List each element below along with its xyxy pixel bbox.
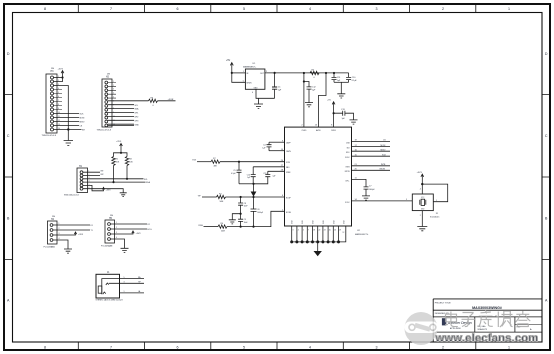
watermark logo disc: [405, 312, 439, 345]
svg-text:23: 23: [324, 230, 326, 232]
node R1/SDA: [112, 181, 114, 183]
svg-text:SSW-106-02-G-S: SSW-106-02-G-S: [64, 195, 80, 197]
svg-text:MOSI: MOSI: [381, 145, 386, 147]
ground (U1): [254, 98, 263, 108]
connector H2 (12-pin header): [102, 79, 112, 127]
capacitor C12: [304, 82, 312, 103]
ground (H5): [121, 248, 129, 252]
wire H3 pin3 down: [54, 86, 69, 130]
capacitor C5: [237, 162, 242, 184]
oscillator X1: [412, 194, 433, 211]
svg-text:1: 1: [124, 291, 125, 293]
wire H1 pin2: [83, 175, 100, 177]
node bus pin8: [327, 240, 330, 243]
connector H1 (6-pin header, I2C): [77, 168, 88, 193]
svg-text:C9: C9: [244, 219, 246, 221]
wire U2 INT2B: [352, 169, 391, 171]
resistor R7: [211, 160, 220, 163]
svg-text:6: 6: [177, 346, 179, 350]
svg-text:MISO: MISO: [80, 122, 85, 124]
watermark chinese glyph 3: [479, 310, 493, 327]
wire VCM net: [197, 161, 211, 163]
svg-text:GND: GND: [254, 87, 259, 89]
resistor R3 (pull-up SCL): [125, 157, 128, 166]
node C8/C9 mid: [240, 213, 242, 215]
ground arrow (ref node to ECGP): [253, 184, 255, 192]
svg-text:25: 25: [329, 230, 331, 232]
svg-text:4: 4: [298, 230, 299, 232]
wire mid branch to ground: [232, 214, 240, 220]
wire H2 pin12: [108, 124, 134, 126]
svg-text:0.1µF: 0.1µF: [352, 80, 358, 82]
svg-text:4: 4: [309, 346, 311, 350]
wire H3 pin10: [54, 113, 80, 115]
svg-text:C15: C15: [263, 173, 266, 175]
wire R1 bottom to SDA: [113, 166, 115, 183]
wire H3 pin2: [54, 78, 63, 82]
node bus pin4: [306, 240, 309, 243]
svg-text:DN: DN: [52, 216, 56, 218]
wire +5V to U1 IN: [232, 72, 246, 74]
watermark chinese glyph 1: [445, 312, 458, 327]
svg-text:10: 10: [58, 112, 60, 114]
title block row line 1: [433, 309, 542, 311]
title block column divider 2: [514, 317, 516, 332]
node rail C1: [274, 72, 276, 74]
connector H3 (14-pin header, top-left): [46, 74, 57, 133]
resistor R2: [217, 195, 226, 198]
svg-text:INT2B: INT2B: [380, 169, 386, 171]
J1 ring contact: [103, 292, 106, 294]
node bus pin6: [316, 240, 319, 243]
H3 pin stubs: [54, 90, 63, 110]
wire H3 pin11: [54, 117, 80, 119]
wire U1 GND down: [256, 89, 275, 98]
wire H5 pin4 to ground: [111, 239, 125, 248]
wire H2 pin9: [108, 115, 134, 117]
ground (H1 pin6): [120, 193, 127, 197]
wire U2 CAPN stub: [269, 150, 285, 152]
wire H2 pin5 to R6: [108, 100, 149, 102]
H4 pin numbers: [59, 223, 60, 240]
svg-text:5: 5: [406, 199, 407, 201]
wire H2 pin11: [108, 123, 134, 125]
connector H4 (4-pin header): [48, 221, 58, 244]
svg-text:10nF: 10nF: [244, 206, 248, 208]
node pull-up top: [120, 152, 122, 154]
svg-text:D: D: [7, 52, 10, 56]
wire H4 pin1: [53, 224, 90, 226]
node C12 branch: [303, 80, 305, 82]
svg-text:GP2: GP2: [135, 117, 139, 119]
svg-text:13: 13: [58, 124, 60, 126]
svg-text:K2: K2: [148, 224, 150, 226]
title block row line 3: [433, 331, 542, 333]
svg-text:SG-3040JC: SG-3040JC: [430, 216, 440, 218]
J1 inner body lines: [102, 279, 120, 295]
node bus pin10: [337, 240, 340, 243]
wire U2 SDI: [352, 146, 391, 148]
capacitor C7: [364, 187, 369, 196]
node R3/SCL: [126, 178, 128, 180]
svg-text:APTE 49090: APTE 49090: [450, 327, 461, 330]
svg-text:www.elecfans.com: www.elecfans.com: [435, 333, 539, 345]
wire J1 pin5: [120, 278, 145, 280]
svg-text:CPLL: CPLL: [345, 180, 349, 182]
node bus pin2: [295, 240, 298, 243]
svg-text:50M: 50M: [221, 231, 225, 233]
wire H3 pin1 to +3V3: [54, 77, 63, 79]
wire H5 pin2: [111, 228, 148, 230]
svg-text:9/5A0U0T3: 9/5A0U0T3: [478, 328, 488, 331]
wire H1 pin1: [83, 171, 100, 173]
node bus pin3: [301, 240, 304, 243]
node rail OVDD branch: [303, 72, 305, 74]
svg-text:VCM: VCM: [286, 162, 290, 164]
wire J1 pin3: [109, 282, 144, 284]
title block rev divider: [515, 324, 542, 326]
svg-text:1000pF: 1000pF: [369, 189, 375, 191]
wire X1 GND down: [421, 211, 423, 227]
ground (C13): [350, 120, 358, 124]
svg-text:DVDD: DVDD: [331, 130, 337, 132]
svg-text:IN2: IN2: [101, 174, 104, 176]
svg-text:29: 29: [339, 230, 341, 232]
H1 pin circles: [80, 171, 83, 190]
wire R7 to VCM pin: [220, 161, 285, 163]
svg-text:11: 11: [113, 120, 115, 122]
H5 pin numbers: [116, 222, 117, 239]
connector J1 (stereo jack 3.5mm): [96, 274, 120, 298]
svg-text:6: 6: [177, 7, 179, 11]
svg-text:STEREO JACK 3.5MM SJ-3523: STEREO JACK 3.5MM SJ-3523: [96, 299, 123, 302]
svg-text:DN: DN: [110, 215, 114, 217]
svg-text:3: 3: [376, 7, 378, 11]
wire H3 pin12: [54, 121, 80, 123]
ground (H3): [64, 141, 73, 146]
svg-text:1: 1: [508, 346, 510, 350]
H1 pin numbers: [89, 171, 90, 190]
svg-text:GND: GND: [135, 124, 140, 126]
border column ticks top: [78, 4, 476, 13]
svg-text:8: 8: [44, 346, 46, 350]
capacitor C14: [251, 167, 256, 184]
svg-text:12: 12: [58, 120, 60, 122]
svg-text:+3V3: +3V3: [78, 234, 84, 236]
svg-text:10nF: 10nF: [244, 222, 248, 224]
svg-text:K1: K1: [91, 225, 93, 227]
border zone numbers bottom: [44, 346, 510, 350]
svg-text:TSW-112-07-G-S: TSW-112-07-G-S: [97, 129, 112, 131]
svg-text:MAX8880EUT+: MAX8880EUT+: [243, 65, 257, 68]
wire +5V to U1 SHDN: [232, 73, 246, 82]
H2 pin numbers: [113, 81, 115, 126]
svg-text:4: 4: [252, 92, 253, 94]
wire H1 pin3 (SCL): [83, 178, 144, 180]
J1 sleeve notch: [98, 286, 102, 293]
node bus pin9: [332, 240, 335, 243]
node H3 pin14 junction: [67, 128, 69, 130]
wire U1 OUT rail: [265, 72, 349, 74]
wire U2 FCLK to X1: [352, 200, 413, 202]
connector H5 (4-pin header): [105, 220, 115, 243]
svg-text:TSW-114-07-G-S: TSW-114-07-G-S: [42, 135, 57, 137]
capacitor C15: [254, 171, 271, 184]
svg-text:C6: C6: [257, 209, 259, 211]
ground (C11/C10): [337, 94, 345, 98]
svg-text:4: 4: [309, 7, 311, 11]
wire H5 pin1: [111, 223, 148, 225]
svg-text:RNG: RNG: [199, 225, 204, 227]
ground (C12): [305, 103, 313, 107]
wire U2 CPLL to C7: [352, 179, 367, 187]
svg-text:SCL: SCL: [144, 179, 148, 181]
svg-text:GP1: GP1: [135, 113, 139, 115]
H2 pin stubs: [108, 83, 116, 99]
wire C11/C10 common: [334, 81, 349, 83]
svg-text:+5V: +5V: [327, 100, 331, 102]
svg-text:1: 1: [436, 200, 437, 202]
title block row line 2: [433, 316, 542, 318]
wire rail to OVDD pin: [303, 73, 305, 127]
svg-text:SHDN: SHDN: [246, 82, 252, 84]
svg-text:5: 5: [243, 7, 245, 11]
capacitor C9: [238, 214, 243, 227]
node common ref: [252, 183, 254, 185]
svg-text:MOSI: MOSI: [80, 118, 85, 120]
border zone letters left: [7, 52, 10, 303]
border zone numbers top: [44, 7, 510, 11]
ground (C8/C9 mid): [229, 220, 236, 224]
svg-text:+3V3: +3V3: [106, 189, 112, 191]
wire to ground (C11/C10): [340, 82, 342, 94]
wire DVDD pin: [333, 113, 335, 127]
border zone letters right: [545, 52, 548, 303]
wire R2 to ECGP pin: [226, 196, 285, 198]
svg-text:DN: DN: [51, 68, 55, 70]
J1 tip contact: [106, 283, 109, 285]
svg-text:+3V3: +3V3: [136, 233, 142, 235]
wire H5 pin3 to +3V3: [111, 232, 134, 234]
ground (X1): [417, 227, 427, 231]
svg-text:7: 7: [308, 230, 309, 232]
capacitor C6: [251, 197, 257, 227]
svg-text:1: 1: [508, 7, 510, 11]
svg-text:PROJECT TITLE:: PROJECT TITLE:: [435, 302, 452, 304]
wire U2 ground bus: [292, 226, 346, 242]
capacitor C1: [274, 73, 276, 87]
wire H3 pin14: [54, 129, 82, 131]
svg-text:VREF: VREF: [286, 172, 291, 174]
wire H2 pin7: [108, 108, 134, 110]
wire J1 pin1: [120, 292, 145, 294]
node X1 VCC: [421, 183, 423, 185]
svg-text:1µF: 1µF: [247, 177, 250, 179]
op-amp/AFE IC U2 MAX30003: [285, 127, 352, 226]
U2 bottom pin stubs: [292, 226, 339, 242]
wire H4 pin2: [53, 229, 90, 231]
node bus pin5: [311, 240, 314, 243]
capacitor C13: [334, 111, 354, 120]
H3 pin circles: [51, 76, 54, 131]
ground (C7): [362, 196, 370, 200]
wire R4 to ECGN pin: [227, 211, 285, 226]
H5 pin circles: [108, 223, 111, 241]
svg-text:C: C: [7, 134, 10, 138]
svg-text:INTB: INTB: [381, 164, 386, 166]
border column ticks bottom: [78, 343, 476, 351]
svg-text:ECGN: ECGN: [286, 212, 292, 214]
svg-text:10: 10: [113, 116, 115, 118]
node ECGP / C6: [252, 196, 254, 198]
node rail C11: [333, 72, 335, 74]
node bus pin7: [321, 240, 324, 243]
svg-text:MAX30003CTI+: MAX30003CTI+: [355, 233, 369, 236]
svg-text:PCC04SAAN: PCC04SAAN: [101, 244, 113, 247]
wire ECGN net: [204, 226, 219, 228]
title block outline: [433, 299, 542, 342]
node DVDD / C13: [333, 112, 335, 114]
capacitor C4: [267, 142, 272, 151]
svg-text:+3V3: +3V3: [417, 172, 423, 174]
wire H1 pin5 to +3V3: [83, 185, 104, 190]
svg-text:C4: C4: [263, 145, 265, 147]
wire U2 CAPP stub: [269, 141, 285, 143]
watermark chinese glyph 5: [516, 311, 531, 327]
resistor R5: [310, 71, 319, 74]
svg-text:2: 2: [442, 346, 444, 350]
svg-text:2: 2: [420, 215, 421, 217]
wire U2 FBO pin: [253, 166, 284, 168]
svg-text:5: 5: [124, 277, 125, 279]
node rail AVDD branch: [325, 72, 327, 74]
wire H1 pin4 (SDA): [83, 181, 146, 183]
svg-text:8: 8: [44, 7, 46, 11]
border row ticks left: [4, 95, 13, 260]
svg-text:3: 3: [293, 230, 294, 232]
svg-text:5: 5: [303, 230, 304, 232]
resistor R6: [149, 99, 158, 102]
title block column divider 1: [474, 317, 476, 332]
svg-text:5: 5: [243, 80, 244, 82]
wire U2 SCLK: [352, 155, 391, 157]
svg-text:18: 18: [313, 230, 315, 232]
svg-text:C5: C5: [233, 170, 235, 172]
wire R3 bottom to SCL: [126, 166, 128, 179]
svg-text:26: 26: [334, 230, 336, 232]
svg-text:5: 5: [243, 346, 245, 350]
wire H3 ground stub: [67, 130, 69, 141]
ground arrow (U2 bus): [317, 242, 319, 251]
svg-text:AVDD: AVDD: [316, 129, 321, 132]
watermark chinese glyph 2: [462, 313, 476, 327]
svg-text:4: 4: [420, 189, 421, 191]
wire X1 VCC pin: [421, 184, 423, 194]
svg-text:7: 7: [110, 346, 112, 350]
svg-text:3: 3: [376, 346, 378, 350]
wire C5/C14/C15 common: [239, 183, 254, 185]
svg-text:CAPN: CAPN: [286, 150, 291, 153]
watermark chinese glyph 4: [496, 311, 513, 327]
wire X1 OUT loop: [422, 184, 447, 202]
svg-text:11: 11: [58, 116, 60, 118]
svg-text:C: C: [545, 134, 548, 138]
power +3V3 (H1 pin5): [102, 187, 104, 189]
svg-text:1: 1: [243, 71, 244, 73]
H4 pin circles: [50, 224, 53, 242]
svg-text:2: 2: [442, 7, 444, 11]
wire U2 SDO: [352, 150, 391, 152]
node ECGN / C6: [252, 226, 254, 228]
svg-text:C8: C8: [244, 203, 246, 205]
X1 crystal symbol: [420, 200, 426, 205]
node ECGN / C9: [240, 226, 242, 228]
svg-text:22: 22: [319, 230, 321, 232]
svg-text:T1: T1: [91, 230, 93, 232]
svg-text:14: 14: [58, 128, 60, 130]
node H3 pin1/pin2 junction: [61, 76, 63, 78]
node +5V input: [231, 72, 233, 74]
power +3V3 (H5): [132, 231, 134, 233]
wire H4 pin4 to ground: [53, 240, 68, 249]
wire H2 pin6: [108, 104, 134, 106]
wire R6 to net: [158, 100, 176, 102]
svg-text:+5V: +5V: [226, 60, 231, 62]
wire ECGP net: [202, 196, 217, 198]
wire U2 CSB: [352, 141, 391, 143]
wire U2 INTB: [352, 165, 391, 167]
node VCM / C5: [238, 161, 240, 163]
H3 pin numbers: [58, 76, 60, 130]
capacitor C11: [332, 73, 337, 82]
wire H3 pin13: [54, 125, 80, 127]
svg-text:C14: C14: [247, 174, 250, 176]
svg-text:50M: 50M: [220, 201, 224, 203]
svg-text:SCL: SCL: [135, 105, 139, 107]
svg-text:3: 3: [124, 282, 125, 284]
node bus pin1: [290, 240, 293, 243]
resistor R4: [218, 225, 227, 228]
svg-text:GP3: GP3: [135, 120, 139, 122]
wire H4 pin3 to +3V3: [53, 233, 76, 235]
svg-text:12: 12: [343, 232, 345, 234]
svg-text:DN: DN: [107, 74, 111, 76]
capacitor C8: [238, 197, 243, 214]
wire U2 VREF pin: [268, 170, 285, 172]
svg-text:OVDD: OVDD: [301, 130, 307, 132]
logo block: [442, 318, 446, 325]
svg-text:MISO: MISO: [381, 149, 386, 151]
regulator U1: [245, 69, 265, 89]
capacitor C10: [346, 73, 351, 82]
node ECGP / C8: [240, 196, 242, 198]
svg-text:PCC04SAAN: PCC04SAAN: [44, 245, 56, 248]
resistor R1 (pull-up SDA): [112, 157, 115, 166]
svg-text:ECG: ECG: [148, 229, 153, 231]
ground (H4): [64, 249, 72, 253]
H2 pin circles: [105, 81, 108, 127]
svg-text:D: D: [545, 52, 548, 56]
border row ticks right: [542, 95, 550, 260]
wire H2 pin10: [108, 119, 134, 121]
wire pull-up top rail: [114, 153, 128, 157]
svg-text:7: 7: [110, 7, 112, 11]
svg-text:+3OR: +3OR: [168, 99, 174, 101]
power +3V3 (H4): [74, 232, 76, 234]
svg-text:1µF: 1µF: [273, 176, 276, 178]
svg-text:1000pF: 1000pF: [257, 212, 263, 214]
wire H1 pin6 to ground: [83, 189, 123, 193]
